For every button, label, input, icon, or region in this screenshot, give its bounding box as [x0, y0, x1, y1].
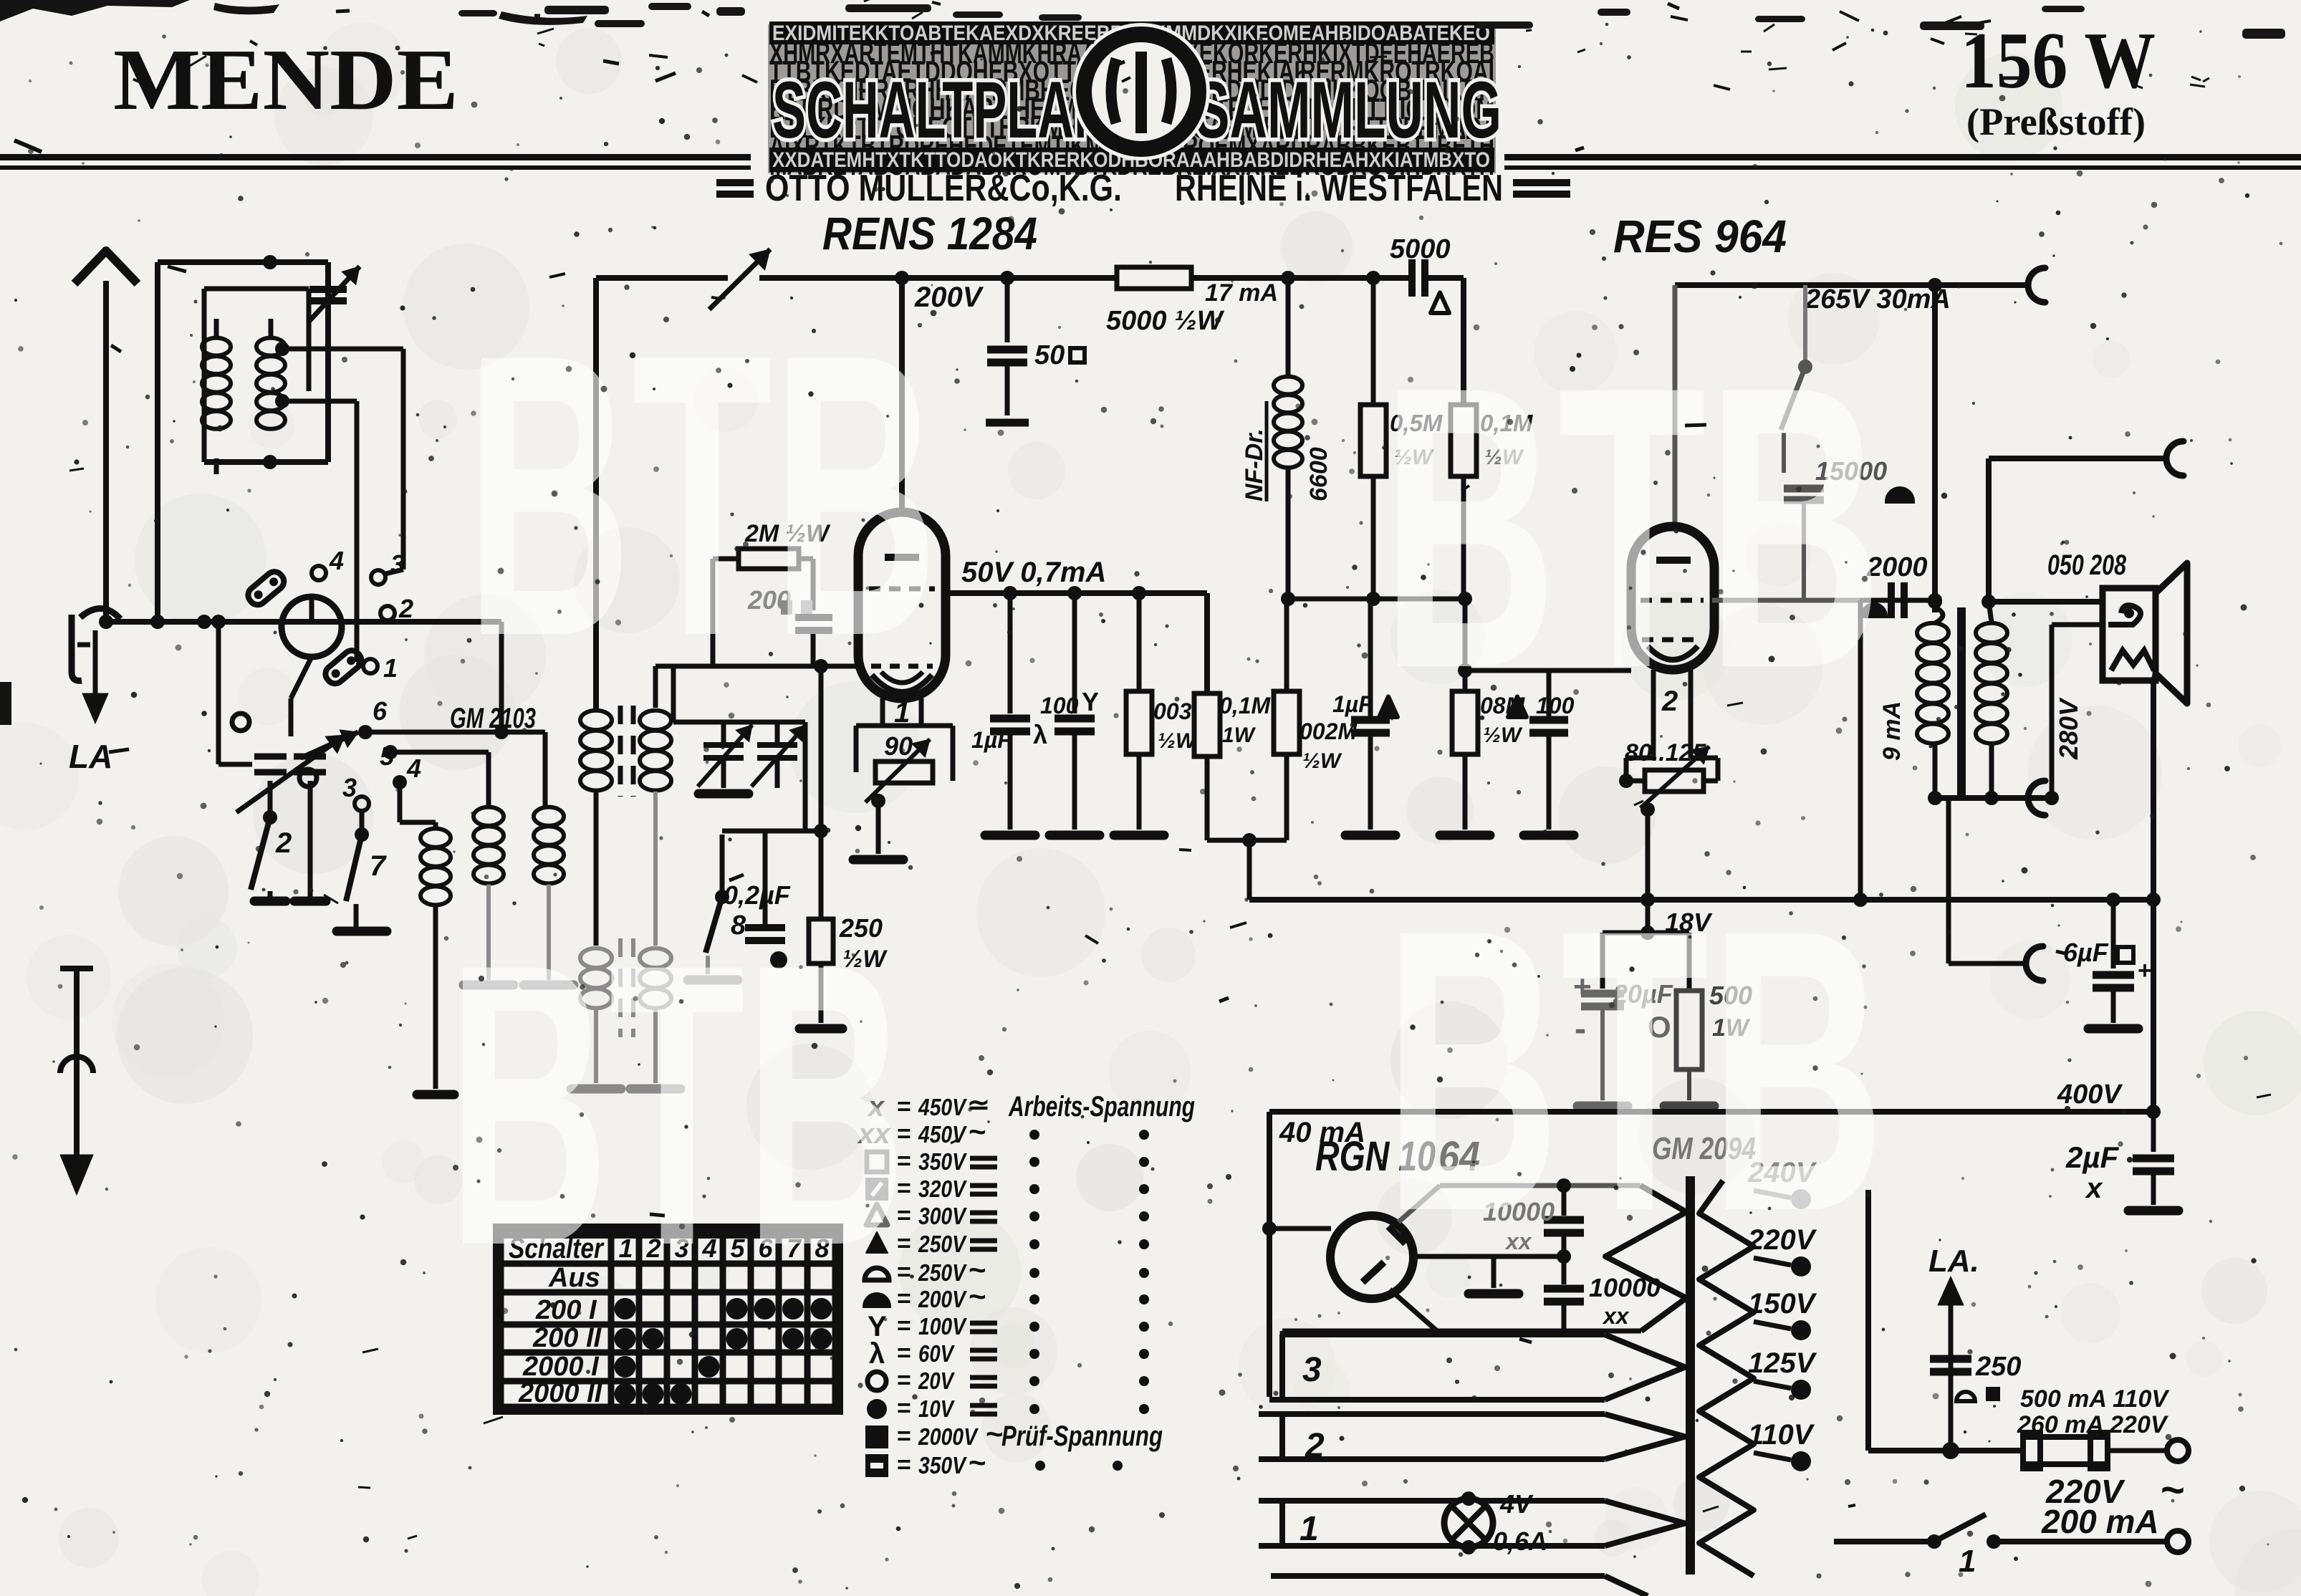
- svg-text:110V: 110V: [1748, 1419, 1815, 1451]
- svg-text:50V 0,7mA: 50V 0,7mA: [961, 557, 1106, 588]
- svg-text:250V: 250V: [918, 1231, 967, 1257]
- svg-text:~: ~: [969, 1446, 986, 1479]
- svg-text:=: =: [897, 1451, 911, 1479]
- svg-text:17 mA: 17 mA: [1205, 279, 1278, 307]
- svg-text:250: 250: [1975, 1352, 2021, 1382]
- svg-text:3: 3: [1302, 1351, 1322, 1389]
- svg-text:350V: 350V: [918, 1452, 968, 1479]
- svg-text:450V: 450V: [918, 1094, 967, 1120]
- svg-text:90: 90: [884, 731, 913, 761]
- svg-text:BTB: BTB: [1381, 303, 1883, 751]
- svg-text:1W: 1W: [1222, 724, 1257, 747]
- svg-text:450V: 450V: [918, 1121, 967, 1148]
- svg-text:RES 964: RES 964: [1613, 211, 1787, 262]
- svg-text:60V: 60V: [918, 1340, 955, 1367]
- svg-text:xx: xx: [1602, 1303, 1630, 1329]
- svg-text:1µF: 1µF: [1332, 691, 1373, 717]
- svg-text:2: 2: [1305, 1427, 1325, 1465]
- svg-text:NF-Dr.: NF-Dr.: [1241, 428, 1268, 501]
- svg-text:4V: 4V: [1499, 1489, 1534, 1519]
- svg-text:1µF: 1µF: [971, 727, 1012, 753]
- svg-text:BTB: BTB: [466, 271, 938, 719]
- svg-text:½W: ½W: [1302, 749, 1342, 773]
- svg-text:+: +: [2138, 957, 2152, 984]
- svg-text:280V: 280V: [2054, 697, 2083, 760]
- svg-text:350V: 350V: [918, 1148, 968, 1175]
- svg-text:2000 I: 2000 I: [522, 1352, 600, 1382]
- svg-text:Y: Y: [1082, 687, 1099, 716]
- svg-text:λ: λ: [1033, 720, 1047, 749]
- svg-text:=: =: [897, 1395, 911, 1422]
- svg-text:10V: 10V: [918, 1395, 955, 1422]
- svg-text:2µF: 2µF: [2065, 1140, 2120, 1174]
- svg-text:6: 6: [373, 696, 388, 726]
- svg-text:~: ~: [969, 1115, 986, 1148]
- svg-text:20V: 20V: [918, 1367, 955, 1394]
- svg-text:Arbeits-Spannung: Arbeits-Spannung: [1008, 1091, 1195, 1123]
- svg-text:~: ~: [986, 1417, 1004, 1451]
- svg-text:RENS 1284: RENS 1284: [822, 208, 1037, 259]
- svg-text:0,1M: 0,1M: [1219, 693, 1271, 718]
- svg-text:50: 50: [1034, 340, 1065, 370]
- svg-text:~: ~: [2161, 1467, 2185, 1514]
- svg-text:=: =: [897, 1340, 911, 1367]
- svg-text:100: 100: [1040, 693, 1079, 718]
- svg-text:5000 ½W: 5000 ½W: [1106, 306, 1225, 336]
- svg-text:050 208: 050 208: [2047, 549, 2127, 581]
- svg-text:200 mA: 200 mA: [2041, 1503, 2159, 1540]
- svg-text:LA: LA: [69, 738, 112, 775]
- svg-text:4: 4: [329, 546, 344, 575]
- svg-text:2: 2: [275, 827, 292, 859]
- svg-text:LA.: LA.: [1928, 1244, 1979, 1279]
- svg-text:260 mA 220V: 260 mA 220V: [2017, 1411, 2169, 1438]
- svg-text:0,6A: 0,6A: [1493, 1527, 1547, 1556]
- svg-text:300V: 300V: [918, 1203, 968, 1229]
- svg-text:2: 2: [398, 594, 413, 623]
- svg-text:400V: 400V: [2057, 1080, 2123, 1110]
- svg-text:λ: λ: [869, 1338, 885, 1370]
- svg-text:RHEINE i. WESTFALEN: RHEINE i. WESTFALEN: [1175, 168, 1503, 209]
- svg-text:x: x: [2085, 1173, 2103, 1204]
- svg-text:100V: 100V: [918, 1313, 968, 1340]
- svg-text:5000: 5000: [1390, 234, 1451, 264]
- svg-text:3: 3: [342, 773, 357, 802]
- svg-text:~: ~: [969, 1279, 986, 1313]
- svg-text:MENDE: MENDE: [113, 32, 458, 128]
- svg-text:1: 1: [383, 653, 398, 683]
- svg-text:250V: 250V: [918, 1259, 967, 1286]
- svg-text:6µF: 6µF: [2063, 938, 2109, 967]
- svg-text:7: 7: [370, 850, 387, 882]
- svg-text:Prüf-Spannung: Prüf-Spannung: [1001, 1420, 1163, 1452]
- svg-text:=: =: [897, 1367, 911, 1394]
- svg-text:BTB: BTB: [1384, 846, 1886, 1294]
- svg-text:156 W: 156 W: [1961, 16, 2156, 105]
- svg-text:4: 4: [406, 754, 421, 783]
- svg-text:2000 II: 2000 II: [518, 1378, 603, 1408]
- svg-text:SCHALTPLAN: SCHALTPLAN: [772, 65, 1110, 155]
- svg-text:6600: 6600: [1305, 447, 1332, 501]
- svg-text:320V: 320V: [918, 1176, 968, 1202]
- svg-text:=: =: [897, 1423, 911, 1450]
- svg-text:200V: 200V: [918, 1286, 967, 1312]
- svg-text:002M: 002M: [1300, 718, 1358, 744]
- svg-text:125V: 125V: [1748, 1347, 1817, 1379]
- svg-text:SAMMLUNG: SAMMLUNG: [1195, 65, 1502, 155]
- svg-text:5: 5: [380, 741, 395, 771]
- svg-text:BTB: BTB: [448, 880, 906, 1329]
- svg-text:(Preßstoff): (Preßstoff): [1966, 100, 2146, 143]
- svg-text:500 mA 110V: 500 mA 110V: [2020, 1385, 2170, 1413]
- svg-text:1: 1: [1300, 1510, 1319, 1548]
